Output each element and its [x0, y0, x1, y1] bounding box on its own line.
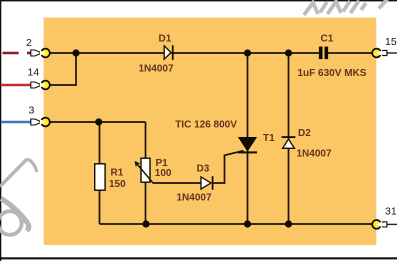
svg-text:TIC 126 800V: TIC 126 800V	[175, 120, 237, 131]
wire P1 branch	[145, 122, 147, 224]
svg-text:D3: D3	[197, 163, 210, 174]
svg-text:1N4007: 1N4007	[139, 63, 174, 74]
wire D3 to T1 gate	[213, 151, 244, 183]
svg-text:150: 150	[109, 179, 126, 190]
wire pin 3 rail	[45, 121, 145, 123]
svg-text:T1: T1	[263, 133, 275, 144]
wire P1 wiper to D3	[153, 182, 202, 184]
wire top rail	[45, 52, 319, 54]
svg-text:R1: R1	[111, 168, 124, 179]
svg-text:15: 15	[385, 36, 397, 48]
diode D2	[282, 128, 332, 160]
svg-text:1N4007: 1N4007	[297, 149, 332, 160]
diode D1	[139, 34, 174, 75]
thyristor T1	[175, 120, 275, 154]
connector pin 31	[372, 206, 397, 229]
connector pin 14	[28, 67, 50, 90]
capacitor C1	[298, 34, 367, 79]
node junction top T1	[244, 49, 251, 56]
svg-text:1uF 630V MKS: 1uF 630V MKS	[298, 68, 367, 79]
node junction R1	[95, 118, 102, 125]
node junction top D2	[285, 49, 292, 56]
node junction bottom T1	[244, 220, 251, 227]
connector pin 2	[26, 37, 50, 57]
resistor R1	[95, 164, 126, 190]
svg-text:100: 100	[155, 168, 172, 179]
svg-text:C1: C1	[321, 34, 334, 45]
wire to pin 14	[1, 84, 31, 87]
svg-text:31: 31	[385, 206, 397, 218]
wire to pin 3	[1, 121, 31, 124]
wire pin 14 branch	[45, 53, 76, 85]
connector pin 15	[372, 36, 397, 57]
node junction bottom D2	[285, 220, 292, 227]
svg-text:D2: D2	[298, 128, 311, 139]
wire D2 vertical	[288, 53, 290, 224]
svg-text:D1: D1	[159, 34, 172, 45]
svg-text:2: 2	[26, 37, 32, 49]
svg-text:14: 14	[28, 67, 40, 79]
node junction pin2/pin14	[72, 49, 79, 56]
wire C1 to pin 15	[328, 52, 372, 54]
svg-text:1N4007: 1N4007	[177, 193, 212, 204]
wire R1 branch	[99, 122, 101, 224]
svg-text:3: 3	[29, 104, 35, 116]
connector pin 3	[29, 104, 50, 126]
potentiometer P1	[135, 158, 172, 183]
wire dashed to pin 2	[3, 52, 32, 55]
wire bottom rail	[100, 223, 373, 225]
diode D3	[177, 163, 214, 203]
wire T1 vertical	[247, 53, 249, 224]
node junction bottom P1	[142, 220, 149, 227]
